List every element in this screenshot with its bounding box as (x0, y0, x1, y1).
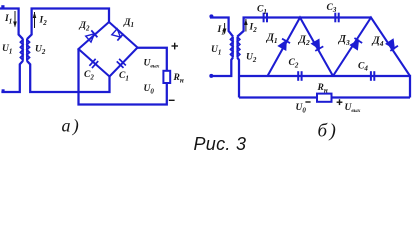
capacitor C2 ticks (circuit b mid rail) (298, 71, 301, 81)
transformer T1 primary winding (circuit a) (20, 39, 23, 61)
current arrow I1 (circuit a) (13, 11, 17, 28)
svg-text:U2: U2 (35, 45, 46, 56)
wire: circuit b primary bottom lead (212, 57, 233, 76)
minus sign (circuit a) (169, 99, 175, 101)
capacitor C3 ticks (circuit b top rail) (335, 13, 338, 23)
transformer T1 secondary winding (circuit a) (27, 39, 30, 61)
svg-text:C4: C4 (358, 61, 368, 72)
resistor R_n (circuit a) (163, 71, 170, 83)
svg-text:б): б) (318, 121, 339, 142)
svg-text:C1: C1 (119, 71, 129, 82)
wire: circuit b primary top lead (210, 18, 233, 37)
svg-text:Д4: Д4 (372, 36, 384, 49)
wire: circuit b secondary bottom, mid rail and output loop (237, 57, 410, 97)
svg-text:U0: U0 (144, 84, 155, 95)
svg-text:Uвых: Uвых (345, 103, 361, 114)
svg-text:Д2: Д2 (298, 35, 310, 48)
wire: circuit a primary bottom return (1, 61, 23, 92)
svg-text:U2: U2 (246, 53, 257, 64)
capacitor C4 ticks (circuit b mid rail) (371, 71, 374, 81)
wire: circuit a primary top rail and down-wire (0, 9, 23, 40)
svg-text:Rн: Rн (173, 73, 184, 84)
wire: circuit a secondary bottom rail to bridge bottom vertex (27, 61, 110, 92)
svg-text:Д3: Д3 (338, 34, 350, 47)
diode D1 (circuit b) (278, 39, 290, 50)
bridge diamond (circuit a) (79, 22, 138, 77)
svg-text:U0: U0 (296, 103, 307, 114)
svg-text:I2: I2 (249, 23, 258, 34)
wire: right vertex to resistor top (138, 48, 167, 71)
diode D3 (circuit b) (350, 38, 362, 50)
svg-text:Д1: Д1 (123, 18, 134, 29)
current arrow I1 (circuit b) (223, 23, 227, 35)
svg-text:Uвых: Uвых (144, 59, 160, 70)
svg-text:C3: C3 (327, 3, 337, 14)
capacitor C1 ticks (circuit b top rail) (264, 13, 267, 23)
diode D2 (circuit b) (311, 39, 323, 50)
svg-text:U1: U1 (2, 44, 12, 55)
node: circuit b input terminal bottom (209, 74, 213, 78)
node: circuit b input terminal top (209, 14, 213, 18)
svg-text:C1: C1 (257, 5, 267, 16)
svg-text:Rн: Rн (317, 83, 328, 94)
svg-text:C2: C2 (289, 58, 299, 69)
svg-text:I1: I1 (217, 25, 225, 36)
plus sign (circuit a) (172, 43, 179, 50)
wire: circuit a secondary top lead and rail to bridge (27, 9, 109, 40)
plus sign (circuit b) (337, 99, 343, 105)
svg-text:Д1: Д1 (266, 33, 278, 46)
transformer T2 primary winding (circuit b) (231, 37, 234, 58)
svg-text:а): а) (62, 116, 81, 137)
svg-text:U1: U1 (211, 45, 221, 56)
node: circuit a input terminal stub bottom (2, 89, 5, 91)
wire: left vertex drop, bottom output rail, up to resistor (79, 49, 167, 105)
wire: zigzag triangle 2 (circuit b) (333, 18, 410, 77)
diode D2 (circuit a, left arm) (85, 30, 97, 42)
svg-text:I2: I2 (39, 16, 48, 27)
capacitor C2 ticks (circuit a) (89, 59, 98, 68)
wire: circuit b secondary top lead and top rail (237, 18, 371, 37)
node: circuit a input terminal stub top (1, 5, 4, 8)
svg-text:Д2: Д2 (79, 21, 91, 32)
resistor R_n (circuit b) (317, 94, 332, 102)
svg-text:I1: I1 (4, 14, 12, 25)
minus sign (circuit b) (305, 101, 310, 103)
diode D1 (circuit a, right arm) (111, 28, 123, 40)
diode D4 (circuit b) (386, 39, 398, 51)
wire: zigzag triangle 1 (circuit b) (268, 18, 334, 77)
transformer T2 secondary winding (circuit b) (237, 37, 240, 58)
current arrow I2 (circuit b) (244, 19, 248, 32)
current arrow I2 (circuit a) (33, 12, 37, 28)
svg-text:C2: C2 (84, 70, 94, 81)
svg-text:Рис. 3: Рис. 3 (194, 134, 247, 154)
capacitor C1 ticks (circuit a) (117, 59, 126, 68)
